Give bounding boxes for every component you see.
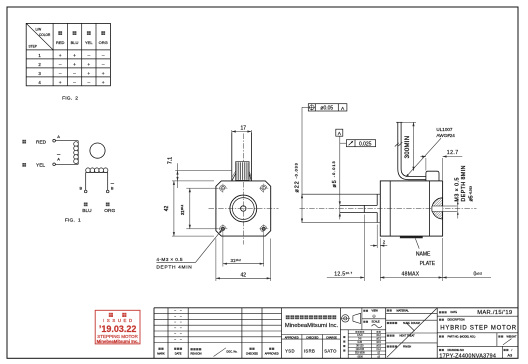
svg-text:YEL: YEL xyxy=(85,40,93,45)
svg-text:L/W: L/W xyxy=(36,28,42,32)
svg-text:±0.2: ±0.2 xyxy=(376,335,381,337)
svg-text:–: – xyxy=(59,63,62,68)
svg-text:120-315: 120-315 xyxy=(356,349,365,351)
svg-text:YEL: YEL xyxy=(36,163,45,169)
svg-text:7.1: 7.1 xyxy=(168,157,174,164)
svg-text:MARK: MARK xyxy=(157,351,165,355)
svg-text:42: 42 xyxy=(241,272,247,278)
svg-text:DEPTH 8MIN: DEPTH 8MIN xyxy=(461,165,467,201)
svg-text:17PY-Z4400NVA3794: 17PY-Z4400NVA3794 xyxy=(439,353,496,359)
svg-text:+: + xyxy=(87,72,90,77)
svg-text:+: + xyxy=(73,63,76,68)
svg-text:315-1000: 315-1000 xyxy=(355,353,365,355)
svg-text:–: – xyxy=(87,81,90,86)
svg-text:MinebeaMitsumi Inc.: MinebeaMitsumi Inc. xyxy=(285,323,339,329)
svg-text:300MIN: 300MIN xyxy=(405,136,411,159)
svg-text:APPROVED: APPROVED xyxy=(285,336,299,339)
svg-text:APPROVED: APPROVED xyxy=(265,352,279,355)
svg-text:CHARGE: CHARGE xyxy=(326,336,337,339)
svg-text:FIG. 2: FIG. 2 xyxy=(62,96,78,102)
svg-text:MinebeaMitsumi Inc.: MinebeaMitsumi Inc. xyxy=(97,339,139,344)
svg-text:+: + xyxy=(59,54,62,59)
svg-text:SCALE: SCALE xyxy=(372,321,381,324)
svg-text:FINISH: FINISH xyxy=(403,345,411,348)
svg-text:CHECKED: CHECKED xyxy=(306,336,318,339)
svg-text:CHECKED: CHECKED xyxy=(246,352,258,355)
svg-text:SATO: SATO xyxy=(324,348,337,353)
svg-text:DATE: DATE xyxy=(175,351,182,355)
svg-text:B: B xyxy=(111,185,114,190)
svg-text:DESCRIPTION: DESCRIPTION xyxy=(448,319,465,322)
svg-text:BLU: BLU xyxy=(82,208,92,214)
svg-text:DOC. No.: DOC. No. xyxy=(227,351,238,354)
svg-text:ISRB: ISRB xyxy=(304,348,315,353)
svg-text:DATE: DATE xyxy=(451,311,458,314)
svg-text:–: – xyxy=(59,72,62,77)
svg-text:ORG: ORG xyxy=(99,40,108,45)
svg-text:DRAWING NO: DRAWING NO xyxy=(448,349,464,352)
svg-text:SURF. ROUGH: SURF. ROUGH xyxy=(403,322,420,325)
svg-text:FIG. 1: FIG. 1 xyxy=(65,218,81,224)
svg-text:48MAX: 48MAX xyxy=(402,271,420,277)
svg-text:42: 42 xyxy=(164,206,170,212)
svg-text:UL1007: UL1007 xyxy=(436,127,453,132)
svg-text:+: + xyxy=(102,81,105,86)
svg-text:0.025: 0.025 xyxy=(359,142,372,148)
svg-text:’19.03.22: ’19.03.22 xyxy=(99,324,137,334)
svg-text:ISSUED: ISSUED xyxy=(103,318,135,323)
svg-text:WEIGHT: WEIGHT xyxy=(507,335,517,338)
svg-text:–: – xyxy=(102,54,105,59)
svg-text:–: – xyxy=(102,63,105,68)
svg-text:HYBRID STEP MOTOR: HYBRID STEP MOTOR xyxy=(440,326,517,332)
svg-text:±0.5: ±0.5 xyxy=(376,342,381,344)
svg-text:DEPTH 4MIN: DEPTH 4MIN xyxy=(156,265,192,271)
svg-text:±0.8: ±0.8 xyxy=(376,346,381,348)
svg-text:STEP: STEP xyxy=(29,45,37,49)
svg-text:4-M3 × 0.5: 4-M3 × 0.5 xyxy=(156,257,183,263)
svg-text:B: B xyxy=(80,185,83,190)
svg-text:–: – xyxy=(73,72,76,77)
svg-text:17: 17 xyxy=(241,126,247,132)
svg-text:-2000: -2000 xyxy=(357,356,364,358)
svg-text:±0.3: ±0.3 xyxy=(376,339,381,341)
svg-text:COLOR: COLOR xyxy=(39,33,51,37)
svg-text:30-120: 30-120 xyxy=(356,346,364,348)
svg-text:ø0.05: ø0.05 xyxy=(320,106,333,112)
svg-text:–: – xyxy=(87,54,90,59)
svg-text:RED: RED xyxy=(56,40,65,45)
svg-text:M3 × 0.5: M3 × 0.5 xyxy=(454,177,460,201)
svg-text:BLU: BLU xyxy=(71,40,79,45)
svg-text:RED: RED xyxy=(36,139,47,145)
svg-text:–: – xyxy=(73,81,76,86)
svg-text:VIEW: VIEW xyxy=(372,310,379,313)
svg-text:+: + xyxy=(59,81,62,86)
svg-text:0.5-3: 0.5-3 xyxy=(357,335,363,337)
svg-text:A3: A3 xyxy=(507,353,513,358)
svg-text:12.7: 12.7 xyxy=(447,150,459,156)
svg-text:NAME: NAME xyxy=(416,252,431,258)
svg-text:MAR./15/’19: MAR./15/’19 xyxy=(477,310,512,316)
svg-text:+: + xyxy=(102,72,105,77)
svg-text:6-30: 6-30 xyxy=(357,342,362,344)
svg-text:AWG#24: AWG#24 xyxy=(436,133,455,138)
svg-text:+: + xyxy=(87,63,90,68)
svg-text:ORG: ORG xyxy=(104,208,115,214)
svg-text:PART NO. (MODEL NO.): PART NO. (MODEL NO.) xyxy=(448,335,476,338)
svg-text:PLATE: PLATE xyxy=(420,261,436,267)
svg-text:±1.2: ±1.2 xyxy=(376,349,381,351)
svg-text:+: + xyxy=(73,54,76,59)
svg-text:A: A xyxy=(57,156,60,161)
svg-text:YSD: YSD xyxy=(285,348,295,353)
svg-text:REASON: REASON xyxy=(191,352,202,356)
svg-text:A: A xyxy=(57,134,60,139)
svg-text:MATERIAL: MATERIAL xyxy=(397,309,410,312)
